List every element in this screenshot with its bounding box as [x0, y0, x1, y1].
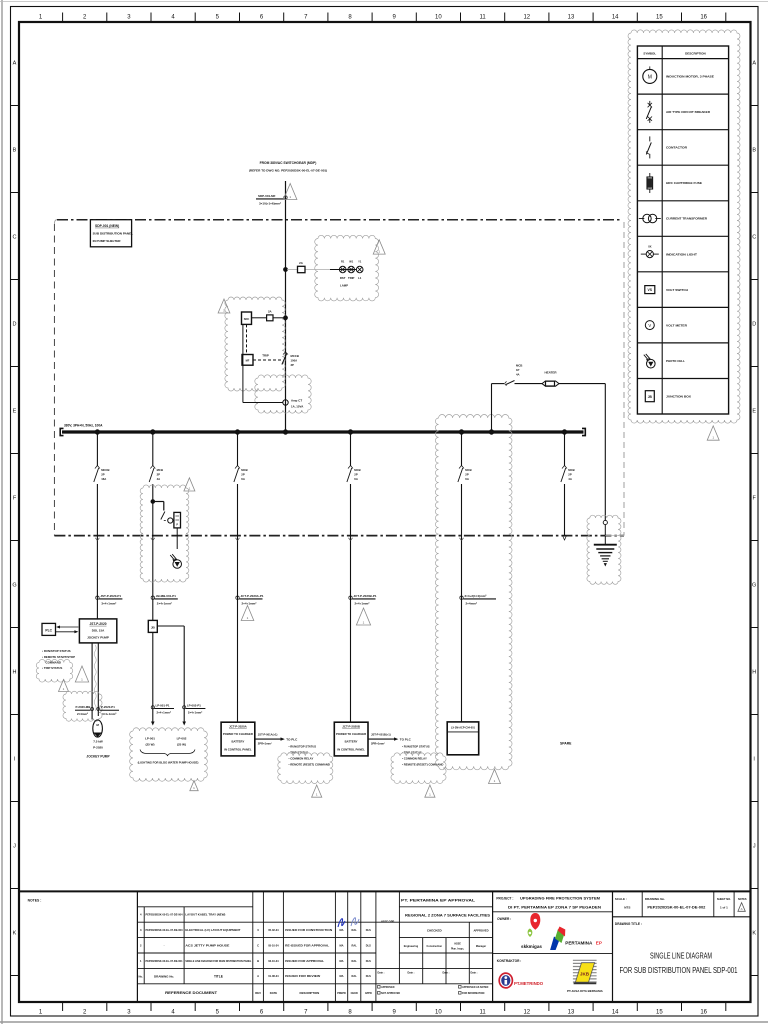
svg-text:PREPD: PREPD — [337, 992, 346, 995]
svg-text:Date :: Date : — [443, 972, 450, 975]
junction box JB — [148, 620, 157, 632]
svg-text:05-10-24: 05-10-24 — [268, 943, 279, 947]
svg-text:10: 10 — [435, 15, 442, 21]
svg-text:2P: 2P — [465, 473, 469, 477]
svg-text:REV: REV — [255, 991, 261, 995]
svg-text:• RUN/STOP STATUS: • RUN/STOP STATUS — [42, 649, 71, 653]
svg-text:SPARE: SPARE — [560, 742, 572, 746]
node lamp branch — [284, 268, 288, 272]
feeder F6 wire — [564, 432, 566, 466]
feeder F5 wire upper — [461, 432, 463, 466]
svg-text:HSSE OPR: HSSE OPR — [381, 920, 395, 924]
svg-text:2×4+2(1×4)mm²: 2×4+2(1×4)mm² — [465, 594, 487, 598]
breaker heater MCB 1P 4A — [505, 381, 507, 383]
svg-text:3P: 3P — [291, 363, 295, 367]
svg-text:(25 W): (25 W) — [177, 742, 186, 746]
incoming cable label — [284, 196, 287, 199]
svg-text:KONTRAKTOR :: KONTRAKTOR : — [497, 959, 522, 963]
signature strokes — [338, 919, 345, 927]
relay box MF — [242, 355, 253, 366]
svg-text:ISSUED FOR CONSTRUCTION: ISSUED FOR CONSTRUCTION — [285, 928, 332, 932]
svg-text:DESCRIPTION: DESCRIPTION — [685, 51, 706, 55]
svg-text:16: 16 — [700, 1010, 707, 1016]
svg-text:MCCB: MCCB — [291, 354, 299, 358]
svg-text:CHKD: CHKD — [351, 992, 358, 995]
svg-text:JCT-P-2020B: JCT-P-2020B — [342, 725, 360, 729]
svg-text:(REFER TO DWG NO. PEP2020DSK-0: (REFER TO DWG NO. PEP2020DSK-00-EL-07-DE… — [249, 169, 327, 173]
wire JB to LP-001 — [152, 632, 154, 722]
svg-text:14: 14 — [612, 15, 619, 21]
svg-text:LAMP: LAMP — [340, 283, 348, 287]
svg-text:REFERENCE DOCUMENT: REFERENCE DOCUMENT — [165, 991, 218, 995]
svg-text:JB: JB — [648, 395, 653, 399]
photocell controller box — [174, 512, 181, 528]
cloud trip status — [36, 659, 73, 682]
wire control branch — [252, 317, 267, 319]
feeder F3 wire upper — [237, 432, 239, 466]
svg-text:REGIONAL 2 ZONA 7 SURFACE FACI: REGIONAL 2 ZONA 7 SURFACE FACILITIES — [405, 914, 490, 918]
svg-text:RAL: RAL — [352, 974, 358, 978]
legend symbol volt switch — [645, 286, 655, 294]
svg-text:R1: R1 — [341, 259, 345, 263]
svg-text:P-2020-MB: P-2020-MB — [76, 705, 91, 709]
svg-text:IN CONTROL PANEL: IN CONTROL PANEL — [337, 747, 365, 751]
svg-text:15: 15 — [656, 15, 663, 21]
svg-text:CURRENT TRANSFORMER: CURRENT TRANSFORMER — [666, 217, 708, 221]
svg-text:SHEET NO.: SHEET NO. — [717, 897, 731, 901]
ground symbol — [594, 544, 617, 546]
svg-text:A: A — [13, 61, 17, 67]
svg-text:TITLE: TITLE — [214, 974, 223, 978]
fuse 2A lamp — [298, 266, 306, 272]
svg-text:6A: 6A — [354, 477, 358, 481]
svg-text:FROM 380VAC SWITCHGEAR (MDP): FROM 380VAC SWITCHGEAR (MDP) — [260, 161, 317, 165]
svg-text:VS: VS — [648, 288, 653, 292]
svg-text:A: A — [752, 61, 756, 67]
page edge shadow — [1, 0, 3, 1024]
svg-text:JCT-P-2020A-P1: JCT-P-2020A-P1 — [241, 594, 264, 598]
svg-text:DRAWING TITLE :: DRAWING TITLE : — [615, 922, 642, 926]
svg-text:6A: 6A — [465, 477, 469, 481]
PLC box — [42, 623, 56, 635]
charger box JCT-P-2020B — [334, 722, 368, 756]
svg-text:RAL: RAL — [352, 943, 358, 947]
svg-text:Y1: Y1 — [358, 259, 362, 263]
svg-text:01-08-24: 01-08-24 — [268, 974, 279, 978]
svg-text:V: V — [648, 323, 651, 328]
svg-text:4A: 4A — [157, 477, 161, 481]
svg-text:LAYOUT KABEL TRAY (NEW): LAYOUT KABEL TRAY (NEW) — [185, 913, 225, 917]
photo cell sensor — [173, 560, 182, 569]
svg-text:JST-P-001B(+1): JST-P-001B(+1) — [371, 732, 391, 736]
svg-text:PERTAMINA: PERTAMINA — [565, 940, 593, 945]
project cell — [492, 891, 494, 1002]
wire CT tap — [242, 324, 244, 402]
skkmigas logo — [530, 913, 540, 930]
svg-text:LP-002-P1: LP-002-P1 — [187, 703, 201, 707]
svg-text:H: H — [13, 670, 17, 676]
svg-text:MCCB: MCCB — [101, 468, 109, 472]
cable label LP-002 — [183, 706, 186, 709]
svg-text:G: G — [752, 583, 756, 589]
svg-text:W1: W1 — [349, 259, 353, 263]
panel boundary bottom — [54, 535, 624, 537]
svg-text:LP-001: LP-001 — [145, 737, 155, 741]
svg-text:NTS: NTS — [624, 905, 630, 909]
svg-text:RAL: RAL — [352, 928, 358, 932]
svg-text:• RUN/STOP STATUS: • RUN/STOP STATUS — [402, 745, 430, 749]
revision triangle F2 — [184, 478, 195, 491]
wire F5 lower — [461, 484, 463, 722]
starter box JST-P-2020 — [79, 619, 116, 643]
svg-text:SDP-001-MF: SDP-001-MF — [258, 194, 276, 198]
svg-text:DLS: DLS — [366, 943, 371, 947]
svg-text:DESCRIPTION: DESCRIPTION — [300, 991, 320, 995]
node control branch — [284, 316, 288, 320]
svg-text:7.5 kW: 7.5 kW — [93, 740, 103, 744]
legend symbol contactor — [649, 136, 651, 141]
feeder F2 wire upper — [152, 432, 154, 466]
svg-text:INDUCTION MOTOR, 3 PHASE: INDUCTION MOTOR, 3 PHASE — [666, 75, 714, 79]
svg-text:• REMOTE (RESET) COMMAND: • REMOTE (RESET) COMMAND — [289, 763, 330, 767]
svg-text:B: B — [257, 959, 259, 963]
reference document table — [136, 891, 138, 1002]
svg-text:APPROVED: APPROVED — [473, 929, 488, 933]
wire JB to LP-002 — [157, 625, 184, 627]
revision table — [252, 891, 254, 1002]
svg-text:13: 13 — [568, 15, 575, 21]
breaker F5 MCB 2P 6A — [459, 466, 462, 469]
svg-text:• COMMON RELAY: • COMMON RELAY — [402, 757, 427, 761]
revision triangle F4 plc — [425, 785, 435, 797]
panel boundary left wire — [54, 220, 57, 224]
svg-text:JST-P-2020-P1: JST-P-2020-P1 — [100, 594, 121, 598]
svg-text:2P: 2P — [354, 473, 358, 477]
svg-text:MA: MA — [339, 959, 343, 963]
svg-text:RAL: RAL — [352, 959, 358, 963]
revision triangle F1b — [75, 666, 88, 682]
revision triangle F4 — [356, 608, 370, 625]
svg-text:LP-001-P1: LP-001-P1 — [156, 703, 170, 707]
svg-text:2×4+1mm²: 2×4+1mm² — [157, 602, 172, 606]
panel label box SDP-001 — [90, 220, 131, 247]
ground cloud — [587, 515, 621, 584]
svg-text:IN CONTROL PANEL: IN CONTROL PANEL — [224, 747, 252, 751]
svg-text:Date :: Date : — [378, 972, 385, 975]
svg-text:ISSUED FOR APPROVAL: ISSUED FOR APPROVAL — [285, 959, 324, 963]
legend symbol motor — [643, 69, 657, 83]
svg-text:JUNCTION BOX: JUNCTION BOX — [666, 394, 692, 398]
svg-text:NOTES: NOTES — [738, 898, 747, 901]
control circuit cloud — [225, 297, 285, 391]
svg-text:PEP2020DSK-00-EL-07-DE-001: PEP2020DSK-00-EL-07-DE-001 — [146, 959, 183, 963]
svg-text:DLS: DLS — [366, 959, 371, 963]
breaker F4 MCB 2P 6A — [348, 466, 351, 469]
svg-text:OWNER :: OWNER : — [497, 917, 511, 921]
svg-text:JST-P-2020: JST-P-2020 — [89, 622, 106, 626]
pertamina ep logo — [550, 937, 559, 951]
svg-text:JKB: JKB — [580, 971, 590, 976]
contact switch — [161, 512, 165, 520]
svg-text:SCALE :: SCALE : — [615, 897, 627, 901]
svg-text:ACS JETTY PUMP HOUSE: ACS JETTY PUMP HOUSE — [185, 943, 229, 947]
svg-text:B: B — [752, 148, 756, 154]
svg-text:SINGLE LINE DIAGRAM FOR MAIN D: SINGLE LINE DIAGRAM FOR MAIN DISTRIBUTIO… — [185, 959, 251, 963]
svg-text:MCB: MCB — [465, 468, 471, 472]
svg-text:J: J — [13, 844, 16, 850]
svg-text:NOTES :: NOTES : — [28, 899, 42, 903]
svg-text:JCT-P-2020B-P1: JCT-P-2020B-P1 — [354, 594, 377, 598]
svg-text:MA: MA — [339, 943, 343, 947]
svg-text:2P: 2P — [101, 473, 105, 477]
svg-text:P-2020: P-2020 — [93, 745, 103, 749]
svg-text:100A: 100A — [291, 359, 298, 363]
svg-text:D: D — [752, 322, 756, 328]
panel boundary dash-dot top — [57, 219, 621, 221]
svg-text:XX: XX — [648, 245, 652, 249]
svg-text:MF: MF — [246, 359, 250, 363]
svg-text:PEP2020DSK-00-EL-07-DE-003: PEP2020DSK-00-EL-07-DE-003 — [146, 928, 183, 932]
svg-text:2P: 2P — [241, 473, 245, 477]
svg-text:skkmigas: skkmigas — [521, 944, 542, 949]
legend symbol fuse — [649, 173, 651, 193]
cloud signals A — [278, 753, 333, 784]
svg-text:MA: MA — [339, 928, 343, 932]
svg-text:K: K — [13, 931, 17, 937]
wire dashed SDC to MF — [246, 324, 248, 354]
svg-text:JCT-P-2020A: JCT-P-2020A — [229, 725, 248, 729]
svg-text:C: C — [13, 235, 17, 241]
svg-text:11: 11 — [479, 1010, 486, 1016]
revision triangle F5 — [489, 769, 501, 783]
svg-text:HSSE: HSSE — [454, 943, 461, 946]
svg-text:NOT APPROVED: NOT APPROVED — [381, 992, 400, 995]
right ruler — [751, 61, 758, 976]
svg-text:PEP2020DSK-00-EL-07-DE-004: PEP2020DSK-00-EL-07-DE-004 — [146, 913, 183, 917]
svg-text:12: 12 — [523, 15, 530, 21]
svg-text:RST: RST — [340, 276, 346, 280]
svg-text:2P: 2P — [157, 473, 161, 477]
svg-text:Construction: Construction — [427, 945, 443, 948]
svg-text:Engineering: Engineering — [404, 945, 419, 948]
feeder F4 wire upper — [350, 432, 352, 466]
outlet box LX-2M-ACP-C04-001 — [447, 722, 479, 755]
svg-text:INDICATION LIGHT: INDICATION LIGHT — [666, 252, 697, 256]
svg-text:MCB: MCB — [241, 468, 247, 472]
svg-text:A: A — [257, 974, 259, 978]
svg-text:1P: 1P — [516, 368, 520, 372]
svg-text:3×4+1mm²: 3×4+1mm² — [102, 712, 116, 716]
svg-text:15: 15 — [656, 1010, 663, 1016]
fuse 2A control — [267, 315, 273, 321]
svg-text:2×4+1mm²: 2×4+1mm² — [188, 710, 202, 714]
svg-text:DOL 15A: DOL 15A — [92, 629, 105, 633]
cloud signals B — [391, 753, 446, 784]
svg-text:380V, 3PH+N, 50Hz, 100A: 380V, 3PH+N, 50Hz, 100A — [64, 424, 103, 428]
panel boundary right wire — [623, 222, 625, 536]
cable label P-2020-P1 — [100, 709, 119, 711]
svg-text:IN PUMP SHELTER: IN PUMP SHELTER — [93, 239, 122, 243]
top ruler — [39, 13, 726, 23]
wire F4 lower — [350, 484, 352, 722]
svg-text:VOLT METER: VOLT METER — [666, 323, 688, 327]
svg-text:MCB: MCB — [568, 468, 574, 472]
svg-text:TO PLC: TO PLC — [286, 737, 298, 741]
feeder F1 wire upper — [96, 432, 98, 466]
title block frame — [19, 890, 751, 892]
svg-text:TRIP: TRIP — [348, 276, 355, 280]
svg-text:POWER TO CHARGER: POWER TO CHARGER — [223, 732, 253, 736]
svg-text:UPGRADING FIRE PROTECTION SYST: UPGRADING FIRE PROTECTION SYSTEM — [520, 897, 600, 901]
cable label F4 — [349, 596, 352, 599]
svg-text:JOCKEY PUMP: JOCKEY PUMP — [86, 754, 110, 758]
svg-text:3×4+1mm²: 3×4+1mm² — [101, 602, 116, 606]
cable label F1 — [96, 596, 99, 599]
svg-text:M: M — [648, 74, 652, 80]
svg-text:DI PT. PERTAMINA EP ZONA 7 SP: DI PT. PERTAMINA EP ZONA 7 SP PEGADEN — [508, 906, 601, 910]
svg-text:C: C — [752, 235, 756, 241]
svg-text:SINGLE LINE DIAGRAM: SINGLE LINE DIAGRAM — [650, 952, 712, 961]
breaker F2 MCB 2P 4A — [150, 466, 153, 469]
svg-text:BATTERY: BATTERY — [231, 739, 244, 743]
svg-text:(LIGHTING FOR BLDG WATER PUMP: (LIGHTING FOR BLDG WATER PUMP HOUSE) — [138, 760, 199, 764]
svg-text:A: A — [741, 907, 743, 911]
wire to photocell — [176, 528, 178, 549]
svg-text:• COMMON RELAY: • COMMON RELAY — [289, 757, 314, 761]
svg-text:P-2020-P1: P-2020-P1 — [101, 705, 115, 709]
svg-text:H: H — [752, 670, 756, 676]
wire to lamp circuit — [287, 269, 298, 271]
cable label F5 — [460, 596, 463, 599]
cable label F3 — [236, 596, 239, 599]
svg-text:CHECKED: CHECKED — [427, 929, 443, 933]
svg-text:Date :: Date : — [471, 972, 478, 975]
jkb logo — [573, 959, 597, 961]
coil circle — [168, 518, 173, 523]
svg-text:E: E — [13, 409, 17, 415]
svg-text:JOCKEY PUMP: JOCKEY PUMP — [87, 636, 109, 640]
svg-text:VOLT SWITCH: VOLT SWITCH — [666, 288, 689, 292]
svg-text:MA: MA — [339, 974, 343, 978]
svg-text:EP: EP — [596, 940, 602, 945]
wire to PLC A — [255, 738, 282, 740]
svg-text:TO PLC: TO PLC — [400, 737, 412, 741]
legend symbol photo cell — [647, 359, 656, 368]
svg-text:03-10-24: 03-10-24 — [268, 959, 279, 963]
motor cable double wire — [91, 643, 93, 720]
svg-text:Manager: Manager — [476, 945, 486, 948]
svg-text:4A: 4A — [568, 477, 572, 481]
svg-text:11: 11 — [479, 15, 486, 21]
svg-text:16: 16 — [700, 15, 707, 21]
svg-text:2×4mm²: 2×4mm² — [77, 712, 88, 716]
svg-text:ELECTRICAL (LV) LAYOUT EQUIPME: ELECTRICAL (LV) LAYOUT EQUIPMENT — [185, 928, 240, 932]
wire F2 lower — [152, 484, 154, 620]
svg-text:MCB: MCB — [354, 468, 360, 472]
wire to PLC B — [368, 738, 396, 740]
svg-text:SDC: SDC — [244, 317, 250, 321]
legend cloud — [628, 30, 740, 423]
svg-text:DATE: DATE — [270, 991, 278, 995]
svg-text:DLS: DLS — [366, 928, 371, 932]
revision triangle below legend — [707, 426, 719, 440]
svg-text:MCB: MCB — [157, 468, 163, 472]
svg-text:2PR×1mm²: 2PR×1mm² — [258, 742, 272, 746]
svg-text:13: 13 — [568, 1010, 575, 1016]
motor M jockey pump — [93, 720, 103, 737]
relay box SDC — [242, 312, 252, 324]
svg-text:16A: 16A — [101, 477, 106, 481]
svg-text:APPROVED: APPROVED — [381, 986, 395, 989]
svg-text:2P: 2P — [568, 473, 572, 477]
svg-text:CONTACTOR: CONTACTOR — [666, 146, 688, 150]
svg-text:J: J — [753, 844, 756, 850]
svg-text:G: G — [12, 583, 16, 589]
svg-text:PROJECT :: PROJECT : — [496, 897, 513, 901]
svg-text:3×10(+1×6)mm²: 3×10(+1×6)mm² — [259, 201, 281, 205]
svg-text:PT.JASA KITA BERSAMA: PT.JASA KITA BERSAMA — [567, 989, 604, 993]
current transformer CT — [283, 400, 288, 405]
cable label F2 — [151, 596, 154, 599]
svg-text:AIR TYPE CIRCUIT BREAKER: AIR TYPE CIRCUIT BREAKER — [666, 110, 711, 114]
svg-text:• RUN/STOP STATUS: • RUN/STOP STATUS — [289, 745, 317, 749]
approval checkboxes — [378, 986, 381, 989]
svg-text:4A: 4A — [516, 373, 520, 377]
svg-text:• TRIP STATUS: • TRIP STATUS — [42, 666, 62, 670]
svg-text:JB-MB-001-P1: JB-MB-001-P1 — [156, 594, 177, 598]
lighting load cloud — [130, 728, 208, 782]
svg-text:6A: 6A — [241, 477, 245, 481]
svg-text:1 of 1: 1 of 1 — [720, 905, 728, 909]
svg-text:ISSUED FOR REVIEW: ISSUED FOR REVIEW — [285, 974, 320, 978]
svg-text:-: - — [164, 944, 165, 947]
svg-text:Amp CT: Amp CT — [291, 399, 302, 403]
breaker F6 MCB 2P 4A — [562, 466, 565, 469]
heater tap wire — [491, 384, 493, 432]
indicator lamps — [339, 266, 346, 273]
svg-text:RE-ISSUED FOR APPROVAL: RE-ISSUED FOR APPROVAL — [285, 943, 329, 947]
wire photocell branch — [153, 501, 164, 503]
svg-text:HEATER: HEATER — [544, 370, 557, 374]
svg-text:SUB DISTRIBUTION PANEL: SUB DISTRIBUTION PANEL — [93, 231, 134, 235]
svg-text:LP-002: LP-002 — [177, 737, 187, 741]
svg-text:JST-P-001A(+1): JST-P-001A(+1) — [258, 732, 278, 736]
wire dashed trip — [253, 359, 282, 361]
wire F1 lower — [96, 484, 98, 619]
svg-text:SYMBOL: SYMBOL — [643, 51, 656, 55]
svg-text:05-02-24: 05-02-24 — [268, 928, 279, 932]
svg-text:E: E — [752, 409, 756, 415]
svg-text:1A, 15VA: 1A, 15VA — [291, 404, 304, 408]
indicator lamps cloud — [315, 235, 379, 301]
svg-text:TRIP: TRIP — [262, 354, 269, 358]
brace — [140, 750, 195, 757]
svg-text:2PR×1mm²: 2PR×1mm² — [371, 742, 385, 746]
legend symbol breaker — [649, 101, 651, 105]
photocell control cloud — [140, 485, 189, 582]
legend table — [637, 46, 728, 414]
svg-text:No.: No. — [139, 974, 144, 978]
svg-text:10: 10 — [435, 1010, 442, 1016]
svg-text:SDP-001 (NEW): SDP-001 (NEW) — [95, 224, 119, 228]
svg-text:14: 14 — [612, 1010, 619, 1016]
svg-text:2×4+1mm²: 2×4+1mm² — [157, 710, 171, 714]
svg-text:(25 W): (25 W) — [146, 742, 155, 746]
cable label LP-001 — [151, 706, 154, 709]
svg-text:PLC: PLC — [45, 628, 52, 632]
svg-text:PHOTO CELL: PHOTO CELL — [666, 359, 685, 363]
svg-text:Date :: Date : — [408, 972, 415, 975]
